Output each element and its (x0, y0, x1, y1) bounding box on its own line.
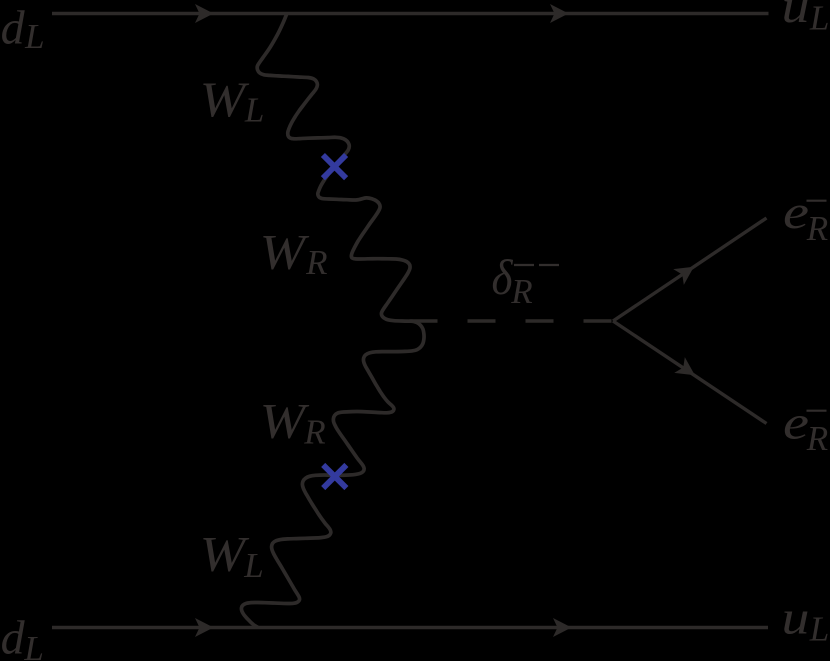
svg-text:d: d (1, 612, 26, 661)
mass-insertion cross (bottom) (323, 465, 346, 488)
svg-text:δ: δ (492, 249, 514, 305)
svg-text:W: W (200, 525, 250, 581)
svg-text:R: R (510, 272, 532, 311)
svg-text:R: R (806, 419, 828, 458)
scalar delta_R dashed propagator (410, 319, 613, 323)
svg-text:e: e (783, 186, 809, 239)
arrow on bottom fermion line (left) (195, 618, 214, 637)
svg-text:u: u (782, 0, 810, 33)
arrow on bottom fermion line (right) (553, 618, 572, 637)
svg-text:L: L (244, 91, 264, 130)
arrow on lower e_R line (674, 357, 700, 383)
boson W_R/W_L wavy line (bottom) (241, 321, 424, 627)
svg-text:L: L (809, 0, 829, 38)
svg-text:R: R (305, 243, 327, 282)
svg-text:d: d (1, 1, 26, 54)
svg-text:R: R (303, 412, 325, 451)
arrow on top fermion line (right) (550, 4, 569, 23)
arrow on top fermion line (left) (195, 4, 214, 23)
mass-insertion cross (top) (323, 155, 346, 178)
svg-text:R: R (806, 209, 828, 248)
svg-text:W: W (200, 71, 250, 127)
boson W_L/W_R wavy line (top) (257, 15, 412, 322)
svg-text:L: L (809, 610, 829, 649)
fermion line e_R lower (613, 321, 767, 424)
wire: top fermion line d_L to u_L (52, 12, 769, 15)
svg-text:e: e (783, 396, 809, 449)
svg-text:u: u (782, 591, 810, 644)
arrow on upper e_R line (673, 259, 699, 285)
wire: bottom fermion line d_L to u_L (52, 626, 768, 629)
svg-text:L: L (243, 546, 263, 585)
svg-text:L: L (24, 17, 44, 56)
svg-text:W: W (260, 392, 310, 448)
svg-text:L: L (23, 629, 43, 661)
svg-text:W: W (260, 223, 310, 279)
fermion line e_R upper (613, 218, 767, 321)
